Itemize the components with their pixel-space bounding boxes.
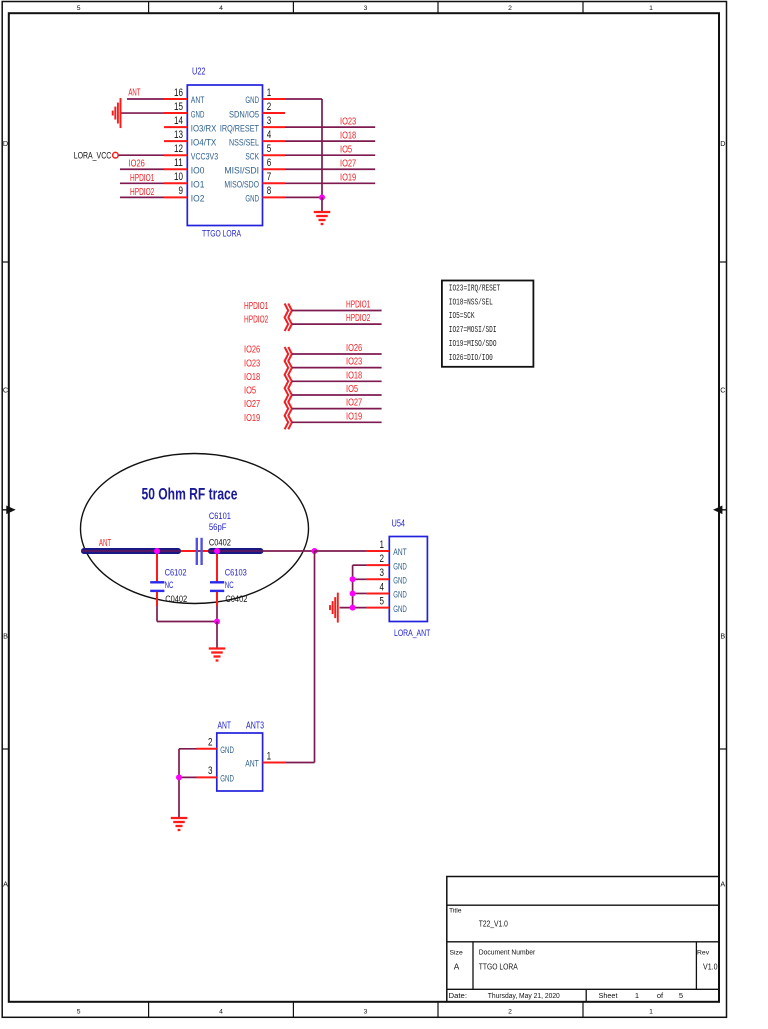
svg-text:IO23: IO23 bbox=[340, 117, 356, 128]
wire IO27 bbox=[292, 408, 382, 410]
net label IO27 (U22 pin 6) bbox=[340, 159, 356, 170]
wire U22 pin 16 ANT bbox=[127, 98, 164, 100]
value label NC (C6103) bbox=[225, 580, 234, 590]
junction at U22 pin 8 GND bbox=[319, 194, 325, 200]
svg-text:GND: GND bbox=[220, 774, 234, 784]
wire U22 pin 8 GND horizontal bbox=[285, 196, 322, 198]
capacitor C6101 plates bbox=[197, 538, 202, 565]
svg-text:7: 7 bbox=[267, 171, 272, 183]
wire U54 pin 2 to bus bbox=[353, 564, 367, 566]
svg-text:3: 3 bbox=[364, 1009, 368, 1016]
net label IO19 (U22 pin 7) bbox=[340, 173, 356, 184]
wire HPDIO2 to U22 pin 9 bbox=[120, 196, 164, 198]
svg-text:ANT: ANT bbox=[218, 720, 232, 732]
net label ANT (RF trace) bbox=[99, 538, 111, 549]
net label IO23 (U22 pin 3) bbox=[340, 117, 356, 128]
svg-text:SCK: SCK bbox=[245, 151, 259, 161]
svg-text:5: 5 bbox=[679, 991, 683, 1000]
svg-text:5: 5 bbox=[77, 1009, 81, 1016]
RF trace bar right bbox=[208, 548, 263, 554]
ground symbol below U22 bbox=[314, 212, 331, 224]
port label IO27 (left) bbox=[244, 399, 260, 410]
ANT3 pin 1 stub bbox=[263, 762, 286, 764]
capacitor C6102 top stub bbox=[156, 554, 158, 582]
svg-text:1: 1 bbox=[267, 87, 272, 99]
U54 pin names bbox=[393, 547, 407, 614]
svg-text:GND: GND bbox=[393, 604, 407, 614]
value label LORA_ANT bbox=[394, 628, 431, 638]
net label IO26 (U22 pin 11) bbox=[129, 159, 145, 170]
svg-text:1: 1 bbox=[380, 539, 385, 551]
svg-text:IO19=MISO/SDO: IO19=MISO/SDO bbox=[449, 339, 497, 349]
wire U54 pin 5 to bus and ground bbox=[340, 607, 367, 609]
svg-text:1: 1 bbox=[635, 991, 639, 1000]
value label C0402 (C6103) bbox=[225, 594, 247, 604]
capacitor C6103 top stub bbox=[216, 554, 218, 582]
svg-text:C6102: C6102 bbox=[165, 567, 187, 577]
svg-text:IO26=DIO/IO0: IO26=DIO/IO0 bbox=[449, 353, 493, 363]
wire HPDIO1 to U22 pin 10 bbox=[120, 182, 164, 184]
port label IO26 (left) bbox=[244, 345, 260, 356]
svg-text:11: 11 bbox=[174, 157, 183, 169]
U22 right pin numbers bbox=[267, 87, 272, 197]
svg-text:of: of bbox=[657, 991, 664, 1000]
svg-text:2: 2 bbox=[208, 737, 213, 749]
svg-text:IO26: IO26 bbox=[244, 345, 260, 356]
svg-text:GND: GND bbox=[191, 109, 205, 119]
net label HPDIO2 bbox=[346, 313, 371, 324]
wire U22 pin 1 GND horizontal bbox=[285, 98, 322, 100]
capacitor C6102 bottom stub bbox=[156, 592, 158, 606]
svg-text:A: A bbox=[720, 880, 725, 889]
off-page connector chevrons IO26..IO19 bbox=[285, 347, 292, 429]
svg-text:C0402: C0402 bbox=[165, 594, 187, 604]
label 50 Ohm RF trace bbox=[142, 485, 238, 504]
svg-text:IO27: IO27 bbox=[244, 399, 260, 410]
svg-text:LORA_VCC: LORA_VCC bbox=[74, 150, 112, 160]
svg-text:6: 6 bbox=[267, 157, 272, 169]
U54 pin stubs bbox=[367, 551, 390, 608]
svg-text:2: 2 bbox=[380, 553, 385, 565]
svg-text:HPDIO1: HPDIO1 bbox=[346, 299, 371, 310]
junction on RF trace at ANT3 branch bbox=[312, 548, 318, 554]
svg-text:IRQ/RESET: IRQ/RESET bbox=[220, 123, 259, 133]
value label NC (C6102) bbox=[165, 580, 174, 590]
svg-text:T22_V1.0: T22_V1.0 bbox=[479, 919, 508, 929]
svg-text:Thursday, May 21, 2020: Thursday, May 21, 2020 bbox=[488, 991, 560, 1000]
svg-text:2: 2 bbox=[508, 1009, 512, 1016]
net label IO19 bbox=[346, 411, 362, 422]
junction on RF trace at C6102 bbox=[154, 548, 160, 554]
svg-text:IO27: IO27 bbox=[340, 159, 356, 170]
svg-text:MISI/SDI: MISI/SDI bbox=[224, 165, 259, 175]
svg-text:ANT: ANT bbox=[191, 95, 205, 105]
capacitor C6103 plates bbox=[210, 582, 224, 591]
net label IO18 (U22 pin 4) bbox=[340, 131, 356, 142]
note box: pin mapping text bbox=[442, 281, 534, 367]
wire RF node down to ANT3 bbox=[314, 551, 316, 763]
ground symbol (rotated) at U22 pin 15 bbox=[113, 98, 121, 128]
value label 56pF bbox=[209, 522, 227, 532]
svg-text:IO18: IO18 bbox=[340, 131, 356, 142]
svg-text:GND: GND bbox=[245, 95, 259, 105]
wire IO19 bbox=[292, 421, 382, 423]
svg-text:U54: U54 bbox=[392, 518, 406, 530]
svg-text:C: C bbox=[3, 386, 8, 395]
junction U54 bus pin 4 bbox=[350, 590, 356, 596]
wire U54 GND vertical bus bbox=[352, 565, 354, 607]
wire IO18 bbox=[292, 380, 382, 382]
svg-text:IO27: IO27 bbox=[346, 398, 362, 409]
svg-text:IO19: IO19 bbox=[244, 413, 260, 424]
wire ANT net horizontal (RF trace) bbox=[81, 550, 315, 552]
wire IO26 bbox=[292, 353, 382, 355]
svg-text:IO18: IO18 bbox=[346, 370, 362, 381]
svg-text:12: 12 bbox=[174, 143, 183, 155]
value label ANT (ANT3) bbox=[218, 720, 232, 732]
U54 pin numbers bbox=[380, 539, 385, 608]
svg-text:5: 5 bbox=[267, 143, 272, 155]
svg-text:IO1: IO1 bbox=[191, 180, 205, 190]
refdes label ANT3 bbox=[246, 720, 264, 732]
net label IO18 bbox=[346, 370, 362, 381]
svg-text:C6103: C6103 bbox=[225, 567, 247, 577]
ANT3 pin number 3 bbox=[208, 765, 213, 777]
ANT3 pin 3 stub bbox=[197, 776, 217, 778]
svg-text:D: D bbox=[720, 139, 725, 148]
wire ANT3 pin 1 to RF node bbox=[286, 762, 315, 764]
svg-text:10: 10 bbox=[174, 171, 183, 183]
port label IO23 (left) bbox=[244, 358, 260, 369]
svg-text:A: A bbox=[454, 962, 460, 972]
net label ANT (U22 pin 16) bbox=[128, 87, 140, 98]
svg-text:SDN/IO5: SDN/IO5 bbox=[229, 109, 259, 119]
ANT3 pin names GND bbox=[220, 745, 234, 784]
net label HPDIO2 (U22 pin 9) bbox=[130, 187, 155, 198]
svg-text:HPDIO2: HPDIO2 bbox=[244, 314, 269, 325]
svg-text:4: 4 bbox=[380, 581, 385, 593]
U22 right pin stubs bbox=[263, 99, 286, 197]
component U54 LORA_ANT body bbox=[389, 537, 427, 622]
wire HPDIO1 bbox=[292, 310, 382, 312]
junction ANT3 GND bbox=[176, 774, 182, 780]
svg-text:3: 3 bbox=[267, 115, 272, 127]
svg-text:GND: GND bbox=[393, 561, 407, 571]
wire U22 pin 3 IO23 bbox=[285, 126, 375, 128]
port label IO5 (left) bbox=[244, 386, 256, 397]
wire ANT3 pin 2 to bus bbox=[179, 748, 197, 750]
svg-text:GND: GND bbox=[393, 590, 407, 600]
svg-text:5: 5 bbox=[380, 595, 385, 607]
svg-text:16: 16 bbox=[174, 87, 183, 99]
svg-text:IO19: IO19 bbox=[340, 173, 356, 184]
wire C6102 down bbox=[156, 606, 158, 622]
svg-text:2: 2 bbox=[508, 5, 512, 12]
svg-text:TTGO LORA: TTGO LORA bbox=[202, 229, 242, 239]
svg-text:B: B bbox=[720, 632, 725, 641]
svg-text:4: 4 bbox=[267, 129, 272, 141]
wire joining C6102/C6103 bottoms bbox=[157, 621, 217, 623]
svg-text:Size: Size bbox=[450, 950, 463, 957]
port label IO19 (left) bbox=[244, 413, 260, 424]
svg-text:IO2: IO2 bbox=[191, 194, 205, 204]
svg-text:IO26: IO26 bbox=[129, 159, 145, 170]
wire U54 pin 3 to bus bbox=[353, 578, 367, 580]
wire IO5 bbox=[292, 394, 382, 396]
svg-text:VCC3V3: VCC3V3 bbox=[191, 151, 218, 161]
svg-text:HPDIO1: HPDIO1 bbox=[130, 173, 155, 184]
svg-text:HPDIO2: HPDIO2 bbox=[130, 187, 155, 198]
ellipse annotation around RF trace bbox=[81, 454, 309, 604]
net label HPDIO1 bbox=[346, 299, 371, 310]
svg-text:IO5: IO5 bbox=[346, 384, 358, 395]
svg-text:ANT: ANT bbox=[245, 759, 259, 769]
port label IO18 (left) bbox=[244, 372, 260, 383]
U22 left pin stubs bbox=[164, 99, 187, 197]
svg-text:15: 15 bbox=[174, 101, 183, 113]
component ANT3 body bbox=[217, 733, 263, 791]
svg-text:NSS/SEL: NSS/SEL bbox=[229, 137, 259, 147]
wire IO23 bbox=[292, 367, 382, 369]
ground symbol below caps bbox=[209, 649, 226, 661]
svg-text:NC: NC bbox=[165, 580, 174, 590]
svg-text:LORA_ANT: LORA_ANT bbox=[394, 628, 431, 638]
svg-text:Rev: Rev bbox=[697, 950, 710, 957]
port label HPDIO2 (left) bbox=[244, 314, 269, 325]
svg-text:1: 1 bbox=[649, 5, 653, 12]
svg-text:C6101: C6101 bbox=[209, 511, 231, 521]
svg-text:MISO/SDO: MISO/SDO bbox=[224, 180, 259, 190]
wire U22 pin 5 IO5 bbox=[285, 154, 375, 156]
wire GND stub down bbox=[321, 197, 323, 211]
svg-text:IO18: IO18 bbox=[244, 372, 260, 383]
off-page connector chevrons HPDIO1/HPDIO2 bbox=[285, 304, 292, 332]
svg-text:IO18=NSS/SEL: IO18=NSS/SEL bbox=[449, 297, 493, 307]
svg-text:Title: Title bbox=[449, 908, 462, 915]
wire U22 pin 6 IO27 bbox=[285, 168, 375, 170]
wire U22 pin 4 IO18 bbox=[285, 140, 375, 142]
svg-text:ANT3: ANT3 bbox=[246, 720, 264, 732]
svg-text:3: 3 bbox=[208, 765, 213, 777]
svg-text:V1.0: V1.0 bbox=[703, 962, 718, 972]
value label C0402 (C6101) bbox=[209, 537, 231, 547]
wire IO26 to U22 pin 11 bbox=[120, 168, 164, 170]
svg-text:HPDIO1: HPDIO1 bbox=[244, 301, 269, 312]
svg-text:NC: NC bbox=[225, 580, 234, 590]
capacitor C6101 pin stubs bbox=[181, 550, 208, 552]
net label IO23 bbox=[346, 357, 362, 368]
svg-text:50 Ohm RF trace: 50 Ohm RF trace bbox=[142, 485, 238, 504]
ANT3 pin number 1 bbox=[267, 750, 272, 762]
svg-text:IO5=SCK: IO5=SCK bbox=[449, 311, 475, 321]
refdes label C6101 bbox=[209, 511, 231, 521]
svg-text:4: 4 bbox=[219, 1009, 223, 1016]
wire HPDIO2 bbox=[292, 323, 382, 325]
capacitor C6103 bottom stub bbox=[216, 592, 218, 606]
svg-text:C0402: C0402 bbox=[225, 594, 247, 604]
svg-text:IO5: IO5 bbox=[244, 386, 256, 397]
svg-text:A: A bbox=[3, 880, 8, 889]
RF trace bar left bbox=[81, 548, 181, 554]
power connector LORA_VCC bbox=[74, 150, 118, 160]
svg-text:IO19: IO19 bbox=[346, 411, 362, 422]
svg-text:1: 1 bbox=[267, 750, 272, 762]
svg-text:IO23=IRQ/RESET: IO23=IRQ/RESET bbox=[449, 283, 501, 293]
value label C0402 (C6102) bbox=[165, 594, 187, 604]
wire ANT3 GND vertical bbox=[178, 749, 180, 817]
svg-text:4: 4 bbox=[219, 5, 223, 12]
svg-text:1: 1 bbox=[649, 1009, 653, 1016]
wire U54 pin 4 to bus bbox=[353, 592, 367, 594]
refdes label U22 bbox=[192, 66, 206, 78]
svg-text:5: 5 bbox=[77, 5, 81, 12]
svg-text:ANT: ANT bbox=[128, 87, 140, 98]
ANT3 pin 2 stub bbox=[197, 748, 217, 750]
svg-text:IO4/TX: IO4/TX bbox=[191, 137, 217, 147]
svg-text:ANT: ANT bbox=[99, 538, 111, 549]
U22 left pin numbers bbox=[174, 87, 183, 197]
svg-text:U22: U22 bbox=[192, 66, 206, 78]
refdes label U54 bbox=[392, 518, 406, 530]
svg-text:8: 8 bbox=[267, 185, 272, 197]
wire C6103 down bbox=[216, 606, 218, 622]
refdes label C6103 bbox=[225, 567, 247, 577]
svg-text:GND: GND bbox=[220, 745, 234, 755]
wire RF node to U54 pin 1 bbox=[315, 550, 367, 552]
wire U22 pin 15 to ground bbox=[121, 112, 165, 114]
svg-text:TTGO LORA: TTGO LORA bbox=[479, 962, 518, 972]
net label IO5 bbox=[346, 384, 358, 395]
port label HPDIO1 (left) bbox=[244, 301, 269, 312]
svg-text:Sheet: Sheet bbox=[599, 991, 619, 1000]
svg-text:3: 3 bbox=[364, 5, 368, 12]
svg-text:9: 9 bbox=[179, 185, 184, 197]
wire cap node to ground bbox=[216, 622, 218, 648]
wire U22 pin 7 IO19 bbox=[285, 182, 375, 184]
svg-text:C: C bbox=[720, 386, 725, 395]
U22 right pin names bbox=[220, 95, 260, 203]
junction U54 bus pin 5 bbox=[350, 605, 356, 611]
svg-text:IO0: IO0 bbox=[191, 165, 205, 175]
svg-text:D: D bbox=[3, 139, 8, 148]
svg-text:IO23: IO23 bbox=[244, 358, 260, 369]
U22 left pin names bbox=[191, 95, 218, 203]
refdes label C6102 bbox=[165, 567, 187, 577]
svg-text:B: B bbox=[3, 632, 8, 641]
ground symbol below ANT3 bbox=[171, 818, 188, 830]
svg-text:3: 3 bbox=[380, 567, 385, 579]
junction U54 bus pin 3 bbox=[350, 576, 356, 582]
svg-text:GND: GND bbox=[245, 194, 259, 204]
svg-text:13: 13 bbox=[174, 129, 183, 141]
component U22 TTGO LORA module body bbox=[187, 85, 262, 226]
capacitor C6102 plates bbox=[150, 582, 164, 591]
svg-text:56pF: 56pF bbox=[209, 522, 227, 532]
value label TTGO LORA bbox=[202, 229, 242, 239]
net label IO26 bbox=[346, 343, 362, 354]
junction on RF trace at C6103 bbox=[214, 548, 220, 554]
ground symbol (rotated) at U54 bbox=[330, 593, 338, 623]
svg-text:Document Number: Document Number bbox=[479, 950, 536, 957]
wire ANT3 pin 3 to bus bbox=[179, 776, 197, 778]
svg-text:HPDIO2: HPDIO2 bbox=[346, 313, 371, 324]
svg-text:C0402: C0402 bbox=[209, 537, 231, 547]
svg-text:GND: GND bbox=[393, 576, 407, 586]
wire LORA_VCC to U22 pin 12 bbox=[119, 154, 165, 156]
svg-text:IO5: IO5 bbox=[340, 145, 352, 156]
ANT3 pin number 2 bbox=[208, 737, 213, 749]
svg-text:IO23: IO23 bbox=[346, 357, 362, 368]
svg-text:ANT: ANT bbox=[393, 547, 407, 557]
net label IO5 (U22 pin 5) bbox=[340, 145, 352, 156]
svg-text:IO27=MOSI/SDI: IO27=MOSI/SDI bbox=[449, 325, 497, 335]
svg-text:IO3/RX: IO3/RX bbox=[191, 123, 217, 133]
svg-text:IO26: IO26 bbox=[346, 343, 362, 354]
title block bbox=[447, 877, 719, 1002]
svg-text:14: 14 bbox=[174, 115, 183, 127]
net label HPDIO1 (U22 pin 10) bbox=[130, 173, 155, 184]
svg-text:Date:: Date: bbox=[449, 991, 468, 1000]
ANT3 pin name ANT bbox=[245, 759, 259, 769]
wire GND vertical bus right of U22 bbox=[321, 99, 323, 197]
net label IO27 bbox=[346, 398, 362, 409]
svg-text:2: 2 bbox=[267, 101, 272, 113]
junction at cap ground node bbox=[214, 619, 220, 625]
